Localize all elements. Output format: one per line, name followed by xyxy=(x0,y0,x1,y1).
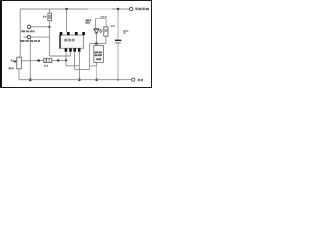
wire: pin6 stub xyxy=(69,52,71,57)
background xyxy=(0,0,152,88)
resistor R2 xyxy=(101,16,108,44)
wire: staircase horizontal 1 xyxy=(66,65,79,67)
wire: long vertical beside buzzer xyxy=(89,44,91,70)
wire: LED/R2 top loop xyxy=(96,18,107,20)
wire: LED/R2 bottoms joining rail-ward vertical xyxy=(90,43,106,45)
resistor R1 xyxy=(43,9,52,27)
node A junction dot xyxy=(48,26,50,28)
capacitor C1 (ceramic) xyxy=(111,9,128,81)
buzzer BZ1 xyxy=(94,46,104,63)
junction dot contact2/ground xyxy=(29,78,32,81)
LED 1 xyxy=(86,19,103,44)
junction dot on top rail for C1 xyxy=(117,8,120,11)
wire: stub into buzzer top xyxy=(95,44,97,46)
op-amp IC1 (DIP-8 package) xyxy=(59,32,85,52)
junction dot buzzer/ground rail xyxy=(95,78,98,81)
junction dot LED/R2 xyxy=(95,42,98,45)
value label LM386 xyxy=(64,39,74,42)
wire: buzzer bottom lead to rail xyxy=(96,62,98,66)
terminal contact 1 xyxy=(21,25,49,32)
LED arrows xyxy=(100,29,103,33)
wire: contact2 down to ground xyxy=(29,39,31,80)
junction dot on bottom rail xyxy=(78,78,81,81)
wire: horizontal to IC pin 6 xyxy=(49,55,70,57)
junction dot on top rail xyxy=(65,8,68,11)
potentiometer P1 xyxy=(9,57,22,79)
wire: pin5 down xyxy=(65,52,67,66)
wire: supply drop to IC top pin xyxy=(66,9,68,32)
border frame xyxy=(0,0,152,88)
wire: top +V rail xyxy=(20,8,129,10)
wire: staircase horizontal 2 xyxy=(75,68,90,70)
terminal contact 2 xyxy=(20,35,49,42)
wire: pin8 down to ground rail xyxy=(78,52,80,80)
wire: left rail xyxy=(19,9,21,57)
wire: pin7 down xyxy=(74,52,76,70)
capacitor C2 (horizontal electrolytic) xyxy=(21,58,67,66)
pin 5..8 bottom stubs xyxy=(65,48,68,51)
terminal 0V (bottom right) xyxy=(132,78,143,81)
terminal +V (top right) xyxy=(130,7,150,10)
wire: buzzer return horizontal xyxy=(90,65,97,67)
pin 1..4 top stubs xyxy=(60,32,63,35)
wire: bottom ground rail xyxy=(19,79,132,81)
wire: sensor vertical down from node A xyxy=(48,27,50,56)
